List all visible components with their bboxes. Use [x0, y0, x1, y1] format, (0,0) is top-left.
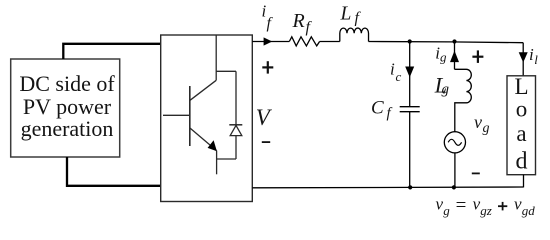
svg-text:o: o: [516, 96, 528, 121]
svg-text:f: f: [267, 15, 274, 32]
svg-text:i: i: [390, 60, 395, 79]
svg-text:f: f: [355, 10, 362, 27]
svg-text:g: g: [442, 82, 450, 98]
svg-text:v: v: [474, 112, 482, 132]
svg-text:l: l: [534, 52, 538, 67]
svg-text:g: g: [483, 121, 490, 136]
svg-text:f: f: [306, 19, 313, 36]
svg-text:gz: gz: [480, 203, 492, 218]
svg-text:g: g: [443, 203, 450, 218]
svg-text:DC side of: DC side of: [19, 71, 115, 96]
svg-text:V: V: [256, 105, 273, 130]
svg-text:generation: generation: [21, 116, 114, 141]
svg-text:=: =: [456, 195, 467, 216]
svg-text:R: R: [292, 10, 305, 32]
svg-text:v: v: [514, 194, 522, 213]
svg-text:v: v: [436, 194, 444, 213]
svg-text:L: L: [340, 4, 352, 25]
svg-text:C: C: [371, 97, 384, 118]
svg-text:c: c: [396, 69, 402, 84]
svg-text:d: d: [516, 149, 528, 175]
svg-text:a: a: [516, 121, 526, 146]
svg-text:f: f: [387, 106, 393, 122]
svg-text:gd: gd: [522, 203, 536, 218]
svg-text:g: g: [440, 50, 447, 65]
